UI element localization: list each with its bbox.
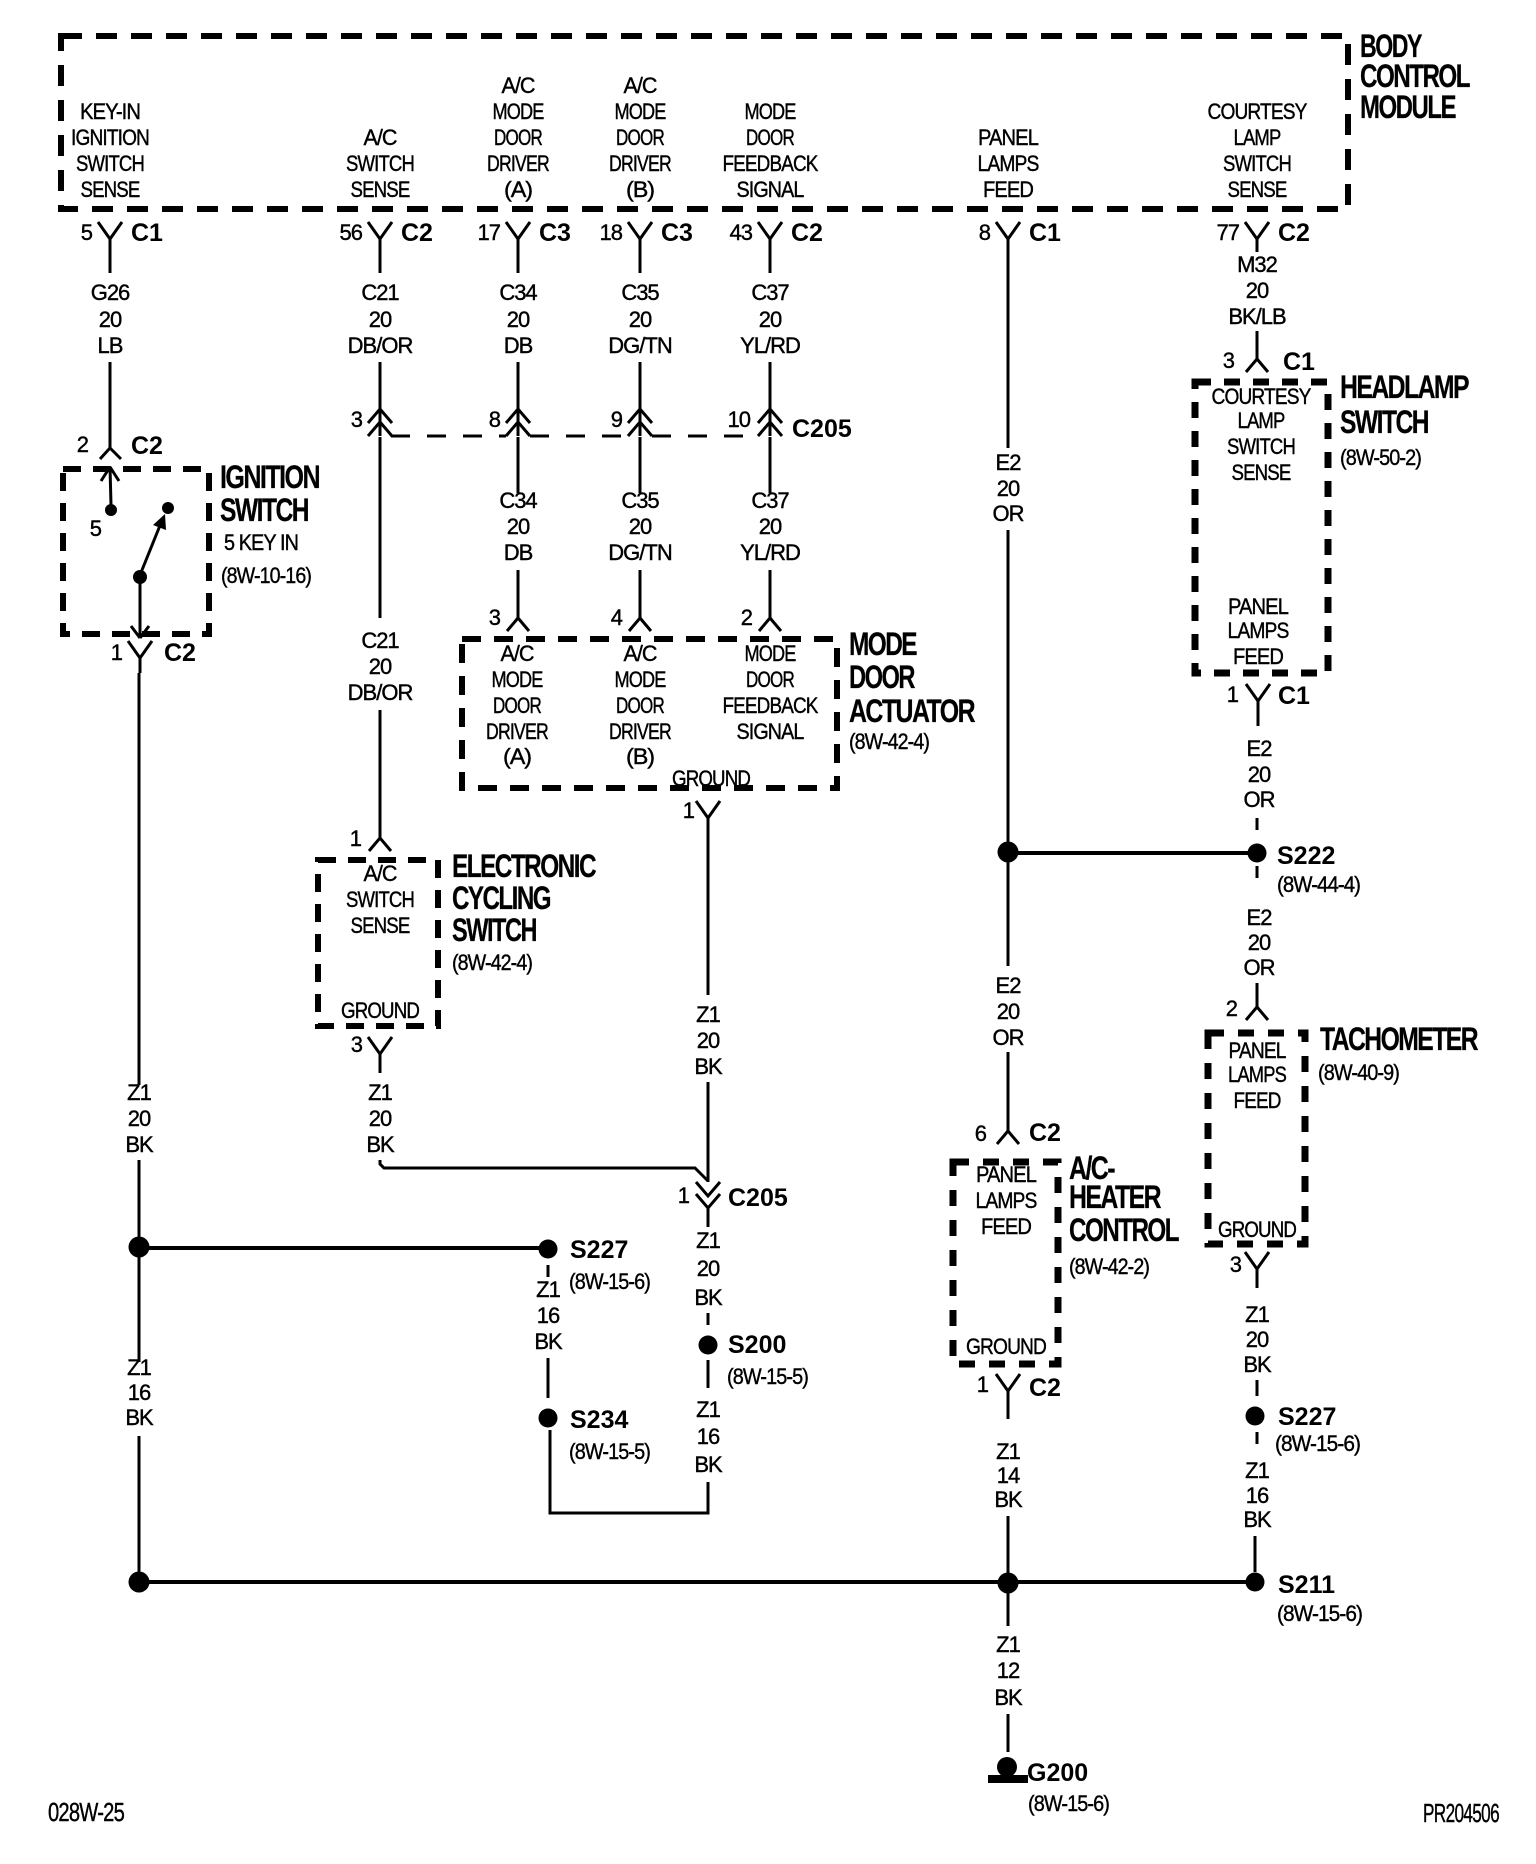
svg-text:OR: OR (1244, 955, 1275, 980)
C205 dashed connector line (391, 435, 506, 438)
svg-text:1: 1 (1227, 682, 1239, 707)
svg-text:ELECTRONIC: ELECTRONIC (452, 848, 596, 884)
wire col6 below junction (1007, 861, 1010, 966)
in-line connector C205 pin 9 (611, 407, 652, 436)
svg-text:HEATER: HEATER (1069, 1179, 1161, 1215)
wire segment below C205 x518 (517, 437, 520, 493)
headlamp switch box (1195, 382, 1328, 673)
svg-text:20: 20 (369, 1106, 392, 1131)
svg-text:20: 20 (369, 654, 392, 679)
svg-text:BK: BK (994, 1487, 1023, 1512)
svg-text:SENSE: SENSE (1232, 460, 1291, 485)
svg-text:S222: S222 (1277, 842, 1335, 870)
svg-text:DRIVER: DRIVER (609, 151, 671, 176)
svg-text:DG/TN: DG/TN (608, 333, 672, 358)
svg-text:G200: G200 (1027, 1759, 1088, 1787)
connector C2 pin 6 into a/c-heater control (975, 1119, 1061, 1147)
wire dash below S222 (1256, 866, 1259, 878)
svg-text:3: 3 (1230, 1252, 1242, 1277)
svg-text:SENSE: SENSE (81, 177, 140, 202)
svg-text:028W-25: 028W-25 (48, 1797, 124, 1827)
svg-text:OR: OR (1244, 787, 1275, 812)
headlamp switch title (1340, 369, 1469, 470)
wire into S211 (1254, 1536, 1257, 1572)
tachometer label: panel lamps feed (1228, 1038, 1286, 1113)
svg-text:PR204506: PR204506 (1423, 1798, 1499, 1828)
wire segment above C205 x640 (639, 362, 642, 436)
svg-text:YL/RD: YL/RD (740, 540, 800, 565)
svg-text:FEED: FEED (1233, 644, 1283, 669)
splice junction dot col6 (998, 842, 1019, 863)
wire E2 label lower col6 (993, 973, 1024, 1050)
wire col6 upper segment (1007, 273, 1010, 448)
wire C34 label upper (499, 280, 537, 358)
connector C2 pin 1 under ignition switch (111, 639, 196, 673)
svg-text:9: 9 (611, 407, 623, 432)
svg-text:1: 1 (683, 798, 695, 823)
BCM label: panel lamps feed (978, 125, 1039, 202)
splice S227 left (539, 1236, 651, 1294)
splice S200 (699, 1331, 809, 1389)
svg-text:FEED: FEED (983, 177, 1033, 202)
svg-text:Z1: Z1 (127, 1080, 151, 1105)
tachometer title (1318, 1021, 1478, 1085)
BCM label: a/c switch sense (346, 125, 414, 202)
a/c-heater control title (1069, 1150, 1179, 1279)
svg-text:(8W-10-16): (8W-10-16) (221, 563, 311, 588)
svg-text:BK: BK (366, 1132, 395, 1157)
svg-text:1: 1 (678, 1183, 690, 1208)
BCM label: a/c mode door driver (A) (487, 73, 549, 202)
svg-text:SWITCH: SWITCH (76, 151, 144, 176)
svg-text:Z1: Z1 (1245, 1458, 1269, 1483)
wire E2 label upper col6 (993, 450, 1024, 526)
svg-text:C3: C3 (661, 219, 693, 247)
wire actuator ground to C205 (707, 1082, 710, 1182)
wire segment above C205 x770 (769, 362, 772, 436)
svg-text:(8W-42-4): (8W-42-4) (849, 729, 929, 754)
svg-text:GROUND: GROUND (1218, 1217, 1296, 1242)
svg-text:20: 20 (1248, 762, 1271, 787)
wire heater ground to bottom junction (1007, 1516, 1010, 1574)
svg-text:18: 18 (600, 220, 623, 245)
ignition switch title (220, 459, 319, 588)
svg-text:(A): (A) (504, 177, 532, 202)
wire C21 label upper (348, 280, 413, 358)
connector pin 3 into mode door actuator (489, 605, 529, 631)
electronic cycling switch title (452, 848, 596, 975)
svg-text:SWITCH: SWITCH (452, 912, 536, 948)
svg-text:S227: S227 (570, 1236, 628, 1264)
svg-text:SWITCH: SWITCH (346, 151, 414, 176)
BCM label: a/c mode door driver (B) (609, 73, 671, 202)
connector pin 4 into mode door actuator (611, 605, 651, 631)
svg-text:20: 20 (759, 307, 782, 332)
svg-text:DB/OR: DB/OR (348, 333, 413, 358)
wire Z1 20 BK label under cycling switch (366, 1080, 395, 1157)
connector pin 2 into mode door actuator (741, 605, 781, 631)
svg-text:CONTROL: CONTROL (1069, 1212, 1179, 1248)
wire to S227 horizontal (139, 1246, 540, 1250)
connector C2 pin 1 under a/c-heater control (977, 1372, 1061, 1419)
svg-text:FEED: FEED (1234, 1088, 1281, 1113)
svg-text:(8W-15-6): (8W-15-6) (569, 1269, 650, 1294)
a/c-heater control box (953, 1162, 1058, 1364)
svg-text:2: 2 (1226, 996, 1238, 1021)
wire below bottom junction (1007, 1592, 1010, 1626)
connector C2 pin 43 fork (730, 219, 823, 273)
svg-text:FEEDBACK: FEEDBACK (723, 151, 819, 176)
svg-text:C1: C1 (1029, 219, 1061, 247)
svg-text:GROUND: GROUND (966, 1334, 1046, 1359)
svg-text:A/C: A/C (502, 73, 536, 98)
svg-text:77: 77 (1217, 220, 1240, 245)
svg-text:3: 3 (351, 407, 363, 432)
svg-text:5 KEY IN: 5 KEY IN (224, 530, 298, 555)
svg-text:PANEL: PANEL (1228, 594, 1289, 619)
svg-text:SWITCH: SWITCH (1227, 434, 1295, 459)
wire S200 column to bottom jumper (550, 1430, 708, 1513)
in-line connector C205 pin 1 (678, 1182, 788, 1212)
svg-text:20: 20 (997, 476, 1020, 501)
electronic cycling switch box (318, 860, 438, 1026)
svg-text:S227: S227 (1278, 1403, 1336, 1431)
svg-text:2: 2 (77, 432, 89, 457)
svg-text:8: 8 (979, 220, 991, 245)
svg-text:14: 14 (997, 1463, 1020, 1488)
svg-text:C21: C21 (361, 628, 399, 653)
actuator label: a/c mode door driver (B) (609, 641, 671, 769)
svg-text:SWITCH: SWITCH (346, 887, 414, 912)
svg-text:(8W-40-9): (8W-40-9) (1318, 1060, 1399, 1085)
svg-text:3: 3 (1223, 348, 1235, 373)
wire Z1 16 BK label below S227 left (534, 1277, 563, 1354)
wire col6 into a/c-heater control (1007, 1052, 1010, 1131)
wire C35 label upper (608, 280, 672, 358)
svg-text:SWITCH: SWITCH (1223, 151, 1291, 176)
svg-text:A/C: A/C (364, 861, 398, 886)
mode door actuator title (849, 626, 975, 754)
svg-text:20: 20 (507, 514, 530, 539)
svg-text:OR: OR (993, 1025, 1024, 1050)
ground G200 symbol (988, 1757, 1109, 1816)
in-line connector C205 pin 10 (728, 407, 852, 443)
svg-text:C2: C2 (1278, 219, 1310, 247)
actuator label: mode door feedback signal (723, 641, 819, 744)
svg-text:FEEDBACK: FEEDBACK (723, 693, 819, 718)
wire Z1 20 BK label actuator ground (694, 1002, 723, 1079)
svg-text:20: 20 (1248, 930, 1271, 955)
connector pin 3 under cycling switch (351, 1032, 392, 1073)
svg-text:DB/OR: DB/OR (348, 680, 413, 705)
wire below C205 pin 1 (707, 1208, 710, 1227)
svg-text:BK: BK (1243, 1352, 1272, 1377)
wire dash above S222 (1256, 818, 1259, 830)
wire left column lower segment (138, 1256, 141, 1362)
svg-text:(8W-15-6): (8W-15-6) (1277, 1601, 1362, 1626)
wire Z1 left main down (138, 673, 141, 1085)
svg-text:C2: C2 (1029, 1374, 1061, 1402)
connector pin 1 under mode door actuator (683, 798, 720, 840)
svg-text:1: 1 (350, 826, 362, 851)
svg-text:DOOR: DOOR (616, 125, 664, 150)
svg-text:C1: C1 (1283, 348, 1315, 376)
svg-text:BK: BK (994, 1685, 1023, 1710)
svg-text:FEED: FEED (981, 1214, 1031, 1239)
svg-text:(8W-15-5): (8W-15-5) (727, 1364, 808, 1389)
body control module box (61, 36, 1348, 209)
wire col2 segment above C205 (379, 362, 382, 436)
svg-text:3: 3 (489, 605, 501, 630)
svg-text:20: 20 (697, 1256, 720, 1281)
svg-text:BK: BK (694, 1452, 723, 1477)
svg-text:COURTESY: COURTESY (1208, 99, 1308, 124)
BCM label: key-in ignition switch sense (71, 99, 149, 202)
svg-text:DOOR: DOOR (746, 125, 794, 150)
svg-text:BK: BK (534, 1329, 563, 1354)
wire G26 label (91, 280, 130, 358)
wire Z1 16 BK label above S211 (1243, 1458, 1272, 1532)
wire E2 label above tachometer (1244, 905, 1275, 980)
svg-text:Z1: Z1 (996, 1632, 1020, 1657)
wire dash above S200 (707, 1313, 710, 1325)
connector C1 pin 1 under headlamp switch (1227, 682, 1310, 726)
svg-text:DOOR: DOOR (493, 693, 541, 718)
wire Z1 20 BK label under tachometer (1243, 1302, 1272, 1377)
wire actuator ground down (707, 840, 710, 995)
wire col6 mid segment (1007, 530, 1010, 843)
svg-text:20: 20 (997, 999, 1020, 1024)
wire col7 short segment (1256, 331, 1259, 349)
svg-text:DRIVER: DRIVER (609, 719, 671, 744)
connector C1 pin 3 into headlamp switch (1223, 348, 1315, 376)
splice junction dot left at S227 line (129, 1237, 150, 1258)
svg-text:C205: C205 (728, 1184, 788, 1212)
svg-text:12: 12 (997, 1658, 1020, 1683)
svg-text:GROUND: GROUND (341, 998, 419, 1023)
svg-text:C35: C35 (621, 280, 659, 305)
svg-text:6: 6 (975, 1121, 987, 1146)
svg-text:16: 16 (128, 1380, 151, 1405)
svg-text:A/C: A/C (501, 641, 535, 666)
svg-text:(8W-42-4): (8W-42-4) (452, 950, 532, 975)
svg-text:ACTUATOR: ACTUATOR (849, 693, 975, 729)
svg-text:A/C: A/C (624, 73, 658, 98)
wire cycling switch ground run to C205 (380, 1160, 708, 1181)
svg-text:SENSE: SENSE (351, 177, 410, 202)
svg-text:Z1: Z1 (696, 1228, 720, 1253)
BCM label: mode door feedback signal (723, 99, 819, 202)
splice S222 (1248, 842, 1361, 897)
svg-text:20: 20 (507, 307, 530, 332)
svg-text:20: 20 (697, 1028, 720, 1053)
wire col2 into cycling switch (379, 710, 382, 838)
svg-text:SWITCH: SWITCH (220, 492, 308, 528)
svg-text:G26: G26 (91, 280, 130, 305)
svg-text:C1: C1 (1278, 682, 1310, 710)
svg-text:E2: E2 (996, 450, 1022, 475)
wire junction to S222 horizontal (1008, 851, 1248, 855)
svg-text:LAMPS: LAMPS (978, 151, 1039, 176)
wire Z1 20 BK label left (125, 1080, 154, 1157)
mode door actuator box (462, 639, 837, 788)
svg-text:DG/TN: DG/TN (608, 540, 672, 565)
svg-text:KEY-IN: KEY-IN (80, 99, 140, 124)
svg-text:Z1: Z1 (536, 1277, 560, 1302)
connector C2 pin 77 fork (1217, 219, 1310, 252)
svg-text:DOOR: DOOR (746, 667, 794, 692)
connector C3 pin 18 fork (600, 219, 693, 273)
wire between labels and S234 (547, 1358, 550, 1398)
svg-text:C2: C2 (791, 219, 823, 247)
svg-text:(B): (B) (626, 744, 654, 769)
svg-text:8: 8 (489, 407, 501, 432)
connector pin 3 under tachometer (1230, 1252, 1269, 1288)
svg-text:1: 1 (111, 640, 123, 665)
svg-text:16: 16 (697, 1424, 720, 1449)
svg-text:(8W-15-6): (8W-15-6) (1028, 1791, 1109, 1816)
svg-text:LAMP: LAMP (1238, 408, 1285, 433)
svg-text:BK: BK (1243, 1507, 1272, 1532)
svg-text:20: 20 (629, 514, 652, 539)
svg-text:MODE: MODE (615, 99, 666, 124)
connector C2 pin 2 into ignition switch (77, 432, 163, 460)
svg-text:MODE: MODE (745, 99, 796, 124)
in-line connector C205 pin 3 (351, 407, 392, 436)
svg-text:20: 20 (1246, 278, 1269, 303)
wire below S200 (707, 1360, 710, 1388)
svg-text:BK: BK (694, 1054, 723, 1079)
splice junction dot bottom col6 (998, 1573, 1019, 1594)
svg-text:LAMPS: LAMPS (1228, 1062, 1286, 1087)
svg-text:C34: C34 (499, 488, 537, 513)
svg-text:1: 1 (977, 1372, 989, 1397)
cycling switch label: a/c switch sense (346, 861, 414, 938)
svg-text:MODE: MODE (493, 99, 544, 124)
svg-text:SIGNAL: SIGNAL (737, 719, 805, 744)
actuator label: a/c mode door driver (A) (486, 641, 548, 769)
svg-text:(8W-50-2): (8W-50-2) (1340, 445, 1421, 470)
svg-text:CYCLING: CYCLING (452, 880, 550, 916)
svg-text:SENSE: SENSE (1228, 177, 1287, 202)
svg-text:(8W-42-2): (8W-42-2) (1069, 1254, 1149, 1279)
svg-text:DB: DB (504, 333, 533, 358)
wire C37 label lower (740, 488, 800, 565)
connector pin 1 into electronic cycling switch (350, 826, 391, 851)
svg-text:IGNITION: IGNITION (71, 125, 149, 150)
svg-text:OR: OR (993, 501, 1024, 526)
svg-text:20: 20 (759, 514, 782, 539)
svg-text:16: 16 (537, 1303, 560, 1328)
svg-text:C2: C2 (164, 639, 196, 667)
svg-text:MODE: MODE (849, 626, 917, 662)
svg-text:S200: S200 (728, 1331, 786, 1359)
svg-text:PANEL: PANEL (1229, 1038, 1287, 1063)
svg-text:GROUND: GROUND (672, 766, 750, 791)
svg-text:C35: C35 (621, 488, 659, 513)
wire M32 label (1228, 252, 1286, 329)
svg-text:BK: BK (125, 1405, 154, 1430)
svg-text:C2: C2 (1029, 1119, 1061, 1147)
svg-text:20: 20 (629, 307, 652, 332)
svg-text:C205: C205 (792, 415, 852, 443)
svg-text:Z1: Z1 (696, 1397, 720, 1422)
wire dash above S227 right (1256, 1380, 1259, 1396)
wire segment above C205 x518 (517, 362, 520, 436)
svg-text:SWITCH: SWITCH (1340, 404, 1428, 440)
svg-text:Z1: Z1 (368, 1080, 392, 1105)
wire left column mid segment (138, 1160, 141, 1240)
connector C3 pin 17 fork (478, 219, 571, 273)
wire into mode door actuator x770 (769, 570, 772, 618)
svg-text:20: 20 (99, 307, 122, 332)
svg-text:20: 20 (1246, 1327, 1269, 1352)
svg-text:BK/LB: BK/LB (1228, 304, 1286, 329)
wire col1 segment (109, 362, 112, 448)
svg-text:16: 16 (1246, 1483, 1269, 1508)
svg-text:DRIVER: DRIVER (486, 719, 548, 744)
ignition switch box (63, 469, 209, 634)
svg-text:43: 43 (730, 220, 753, 245)
svg-text:2: 2 (741, 605, 753, 630)
wire col2 segment below C205 (379, 437, 382, 618)
wire Z1 16 BK label left (125, 1355, 154, 1430)
svg-text:DOOR: DOOR (494, 125, 542, 150)
svg-text:LB: LB (98, 333, 123, 358)
splice S234 (539, 1406, 651, 1464)
svg-text:MODE: MODE (492, 667, 543, 692)
svg-text:A/C: A/C (364, 125, 398, 150)
wire Z1 12 BK label (994, 1632, 1023, 1710)
svg-text:MODULE: MODULE (1360, 89, 1456, 125)
BCM label: courtesy lamp switch sense (1208, 99, 1308, 202)
connector C2 pin 56 fork (340, 219, 433, 273)
svg-text:10: 10 (728, 407, 751, 432)
svg-text:(8W-15-6): (8W-15-6) (1275, 1431, 1360, 1456)
svg-text:5: 5 (90, 516, 102, 541)
svg-text:DOOR: DOOR (849, 659, 915, 695)
svg-text:(8W-44-4): (8W-44-4) (1277, 872, 1360, 897)
svg-text:M32: M32 (1237, 252, 1278, 277)
svg-text:YL/RD: YL/RD (740, 333, 800, 358)
svg-text:E2: E2 (1247, 736, 1273, 761)
svg-text:TACHOMETER: TACHOMETER (1320, 1021, 1478, 1057)
svg-text:E2: E2 (1247, 905, 1273, 930)
svg-text:BK: BK (694, 1285, 723, 1310)
wire dash below S227 right (1256, 1432, 1259, 1444)
svg-text:LAMPS: LAMPS (976, 1188, 1037, 1213)
svg-text:5: 5 (81, 220, 93, 245)
wire into mode door actuator x518 (517, 570, 520, 618)
wire bottom main horizontal (139, 1580, 1255, 1584)
svg-text:4: 4 (611, 605, 623, 630)
svg-text:C2: C2 (131, 432, 163, 460)
svg-text:(8W-15-5): (8W-15-5) (569, 1439, 650, 1464)
wire Z1 20 BK label below C205 (694, 1228, 723, 1310)
svg-text:Z1: Z1 (696, 1002, 720, 1027)
wire segment below C205 x770 (769, 437, 772, 493)
connector C1 pin 8 fork (979, 219, 1061, 273)
svg-text:DRIVER: DRIVER (487, 151, 549, 176)
svg-text:C1: C1 (131, 219, 163, 247)
svg-text:COURTESY: COURTESY (1212, 384, 1312, 409)
wire C37 label upper (740, 280, 800, 358)
wire Z1 16 BK label below S200 (694, 1397, 723, 1477)
svg-text:A/C: A/C (624, 641, 658, 666)
svg-text:LAMP: LAMP (1234, 125, 1281, 150)
body control module title (1360, 28, 1470, 125)
svg-text:DB: DB (504, 540, 533, 565)
